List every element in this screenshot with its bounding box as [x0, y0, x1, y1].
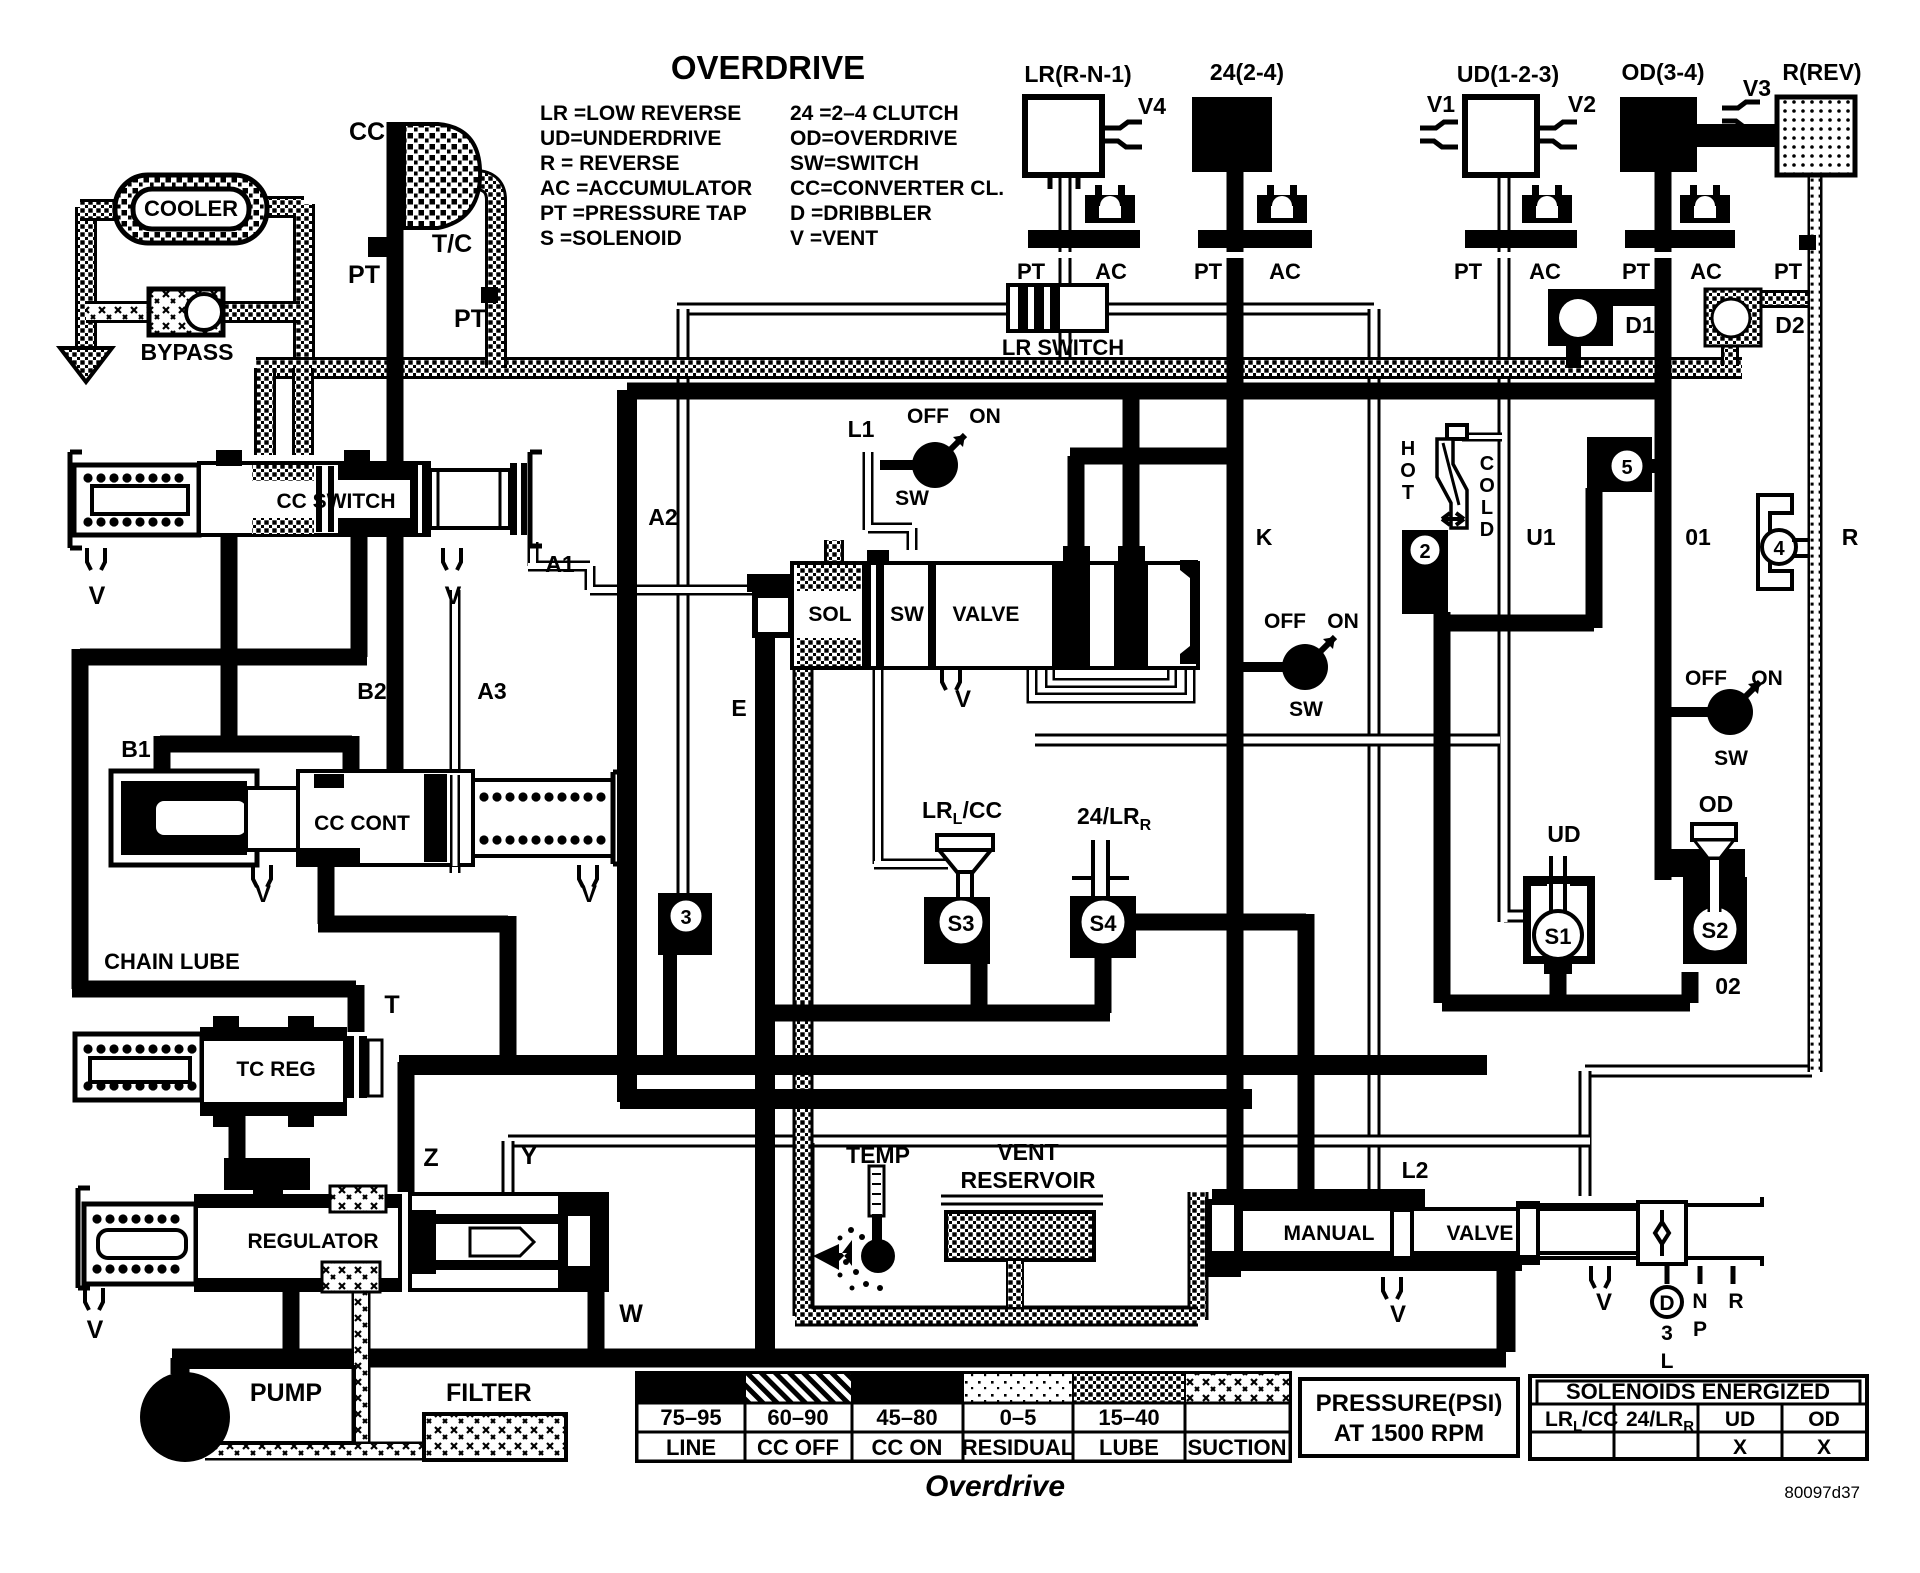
- svg-text:80097d37: 80097d37: [1784, 1483, 1860, 1502]
- svg-text:V: V: [87, 1316, 104, 1344]
- LR switch: [1008, 285, 1107, 331]
- svg-text:CC: CC: [349, 118, 385, 146]
- svg-text:R: R: [1842, 524, 1859, 550]
- svg-text:Z: Z: [423, 1144, 438, 1172]
- svg-text:ON: ON: [1751, 667, 1783, 690]
- regulator second stage valve: [410, 1194, 607, 1290]
- svg-text:O: O: [1479, 475, 1495, 497]
- svg-text:UD: UD: [1725, 1408, 1755, 1431]
- svg-text:CC=CONVERTER CL.: CC=CONVERTER CL.: [790, 177, 1004, 200]
- svg-text:K: K: [1256, 524, 1273, 550]
- svg-text:V: V: [255, 881, 271, 908]
- wire cooler left duct: [75, 207, 97, 348]
- svg-text:R: R: [1728, 1290, 1743, 1313]
- svg-text:CC OFF: CC OFF: [757, 1435, 839, 1460]
- manual valve position ticks: [1667, 1266, 1733, 1284]
- svg-text:UD=UNDERDRIVE: UD=UNDERDRIVE: [540, 127, 721, 150]
- svg-text:AC: AC: [1269, 259, 1301, 284]
- svg-text:02: 02: [1715, 973, 1741, 999]
- wire pressure switch 3 drop: [663, 950, 677, 1070]
- svg-text:CHAIN LUBE: CHAIN LUBE: [104, 949, 240, 974]
- svg-text:45–80: 45–80: [876, 1405, 937, 1430]
- vent under CC SWITCH right: [443, 548, 461, 570]
- wire LR switch left channel: [677, 303, 1010, 316]
- wire Z drop: [398, 1062, 415, 1192]
- svg-text:SUCTION: SUCTION: [1188, 1435, 1287, 1460]
- cooler: [115, 175, 267, 243]
- svg-text:OD=OVERDRIVE: OD=OVERDRIVE: [790, 127, 957, 150]
- reverse clutch box: [1777, 97, 1855, 175]
- wire solenoid valve top stub: [824, 540, 844, 580]
- svg-text:S4: S4: [1090, 911, 1118, 936]
- svg-text:PRESSURE(PSI): PRESSURE(PSI): [1316, 1390, 1503, 1417]
- wire TC REG to regulator drop: [229, 1110, 246, 1170]
- svg-text:H: H: [1401, 438, 1415, 460]
- svg-text:P: P: [1693, 1318, 1707, 1341]
- wire E line: [755, 578, 775, 1354]
- svg-text:D1: D1: [1625, 312, 1655, 338]
- svg-text:V: V: [955, 686, 971, 713]
- solenoids energized table: [1530, 1376, 1867, 1459]
- svg-text:SW: SW: [890, 603, 924, 626]
- svg-text:L: L: [1481, 497, 1493, 519]
- dribbler D2: [1705, 289, 1761, 346]
- wire main lube band: [256, 357, 1742, 379]
- wire D1 drain: [1566, 344, 1581, 368]
- vent under CC CONT right: [579, 865, 597, 887]
- vent V1: [1420, 122, 1458, 147]
- wire 24 valve junction: [1070, 391, 1235, 560]
- wire R residual line vertical: [1808, 170, 1823, 1072]
- svg-text:PT: PT: [1194, 259, 1223, 284]
- wire 5 to OD stub: [1645, 459, 1665, 473]
- svg-text:T/C: T/C: [432, 230, 472, 258]
- wire CC main line: [387, 122, 404, 776]
- temp spray: [813, 1240, 852, 1270]
- dribbler D1: [1548, 289, 1613, 346]
- svg-text:CC SWITCH: CC SWITCH: [277, 490, 396, 513]
- svg-text:N: N: [1692, 1290, 1707, 1313]
- valve MANUAL VALVE: [1212, 1189, 1425, 1211]
- vent under SOL valve: [942, 668, 960, 690]
- svg-text:5: 5: [1621, 457, 1632, 479]
- legend table: [637, 1373, 1290, 1461]
- wire W line: [588, 1290, 605, 1352]
- svg-text:ON: ON: [969, 405, 1001, 428]
- wire 24 switch stub: [1243, 662, 1284, 672]
- wire thermal to 5 bar: [1442, 488, 1594, 628]
- svg-text:T: T: [1402, 482, 1414, 504]
- bypass valve: [149, 289, 223, 335]
- svg-text:SW=SWITCH: SW=SWITCH: [790, 152, 919, 175]
- svg-text:UD: UD: [1547, 821, 1580, 847]
- vent under CC SWITCH left: [87, 548, 105, 570]
- svg-text:A1: A1: [545, 551, 575, 577]
- svg-text:S1: S1: [1545, 924, 1572, 949]
- torque converter T/C: [404, 124, 480, 228]
- svg-text:PT: PT: [1622, 259, 1651, 284]
- svg-text:RESIDUAL: RESIDUAL: [962, 1435, 1074, 1460]
- svg-text:60–90: 60–90: [767, 1405, 828, 1430]
- svg-text:AC: AC: [1095, 259, 1127, 284]
- pressure tap on CC line: [368, 237, 396, 257]
- wire SW to S3 line: [874, 660, 948, 864]
- OD clutch box: [1620, 97, 1697, 172]
- solenoid S3: [937, 835, 993, 850]
- wire hot-cold drop: [1434, 612, 1451, 1003]
- wire pump suction channel: [205, 1442, 430, 1461]
- svg-text:PT: PT: [454, 305, 486, 333]
- UD clutch box: [1465, 97, 1537, 175]
- wire OD to reverse connector: [1695, 124, 1779, 147]
- svg-text:LINE: LINE: [666, 1435, 716, 1460]
- wire mid vertical from H0: [617, 390, 637, 1102]
- svg-text:SOL: SOL: [808, 603, 851, 626]
- svg-text:LRL/CC: LRL/CC: [1545, 1408, 1618, 1435]
- wire UD output channel: [1035, 734, 1500, 747]
- thermal valve arrow: [1442, 513, 1464, 525]
- switch on 24 line: [1243, 662, 1305, 672]
- wire S4 drop: [1095, 952, 1112, 1013]
- wire bypass branch: [86, 301, 150, 323]
- svg-text:AC =ACCUMULATOR: AC =ACCUMULATOR: [540, 177, 752, 200]
- filter: [424, 1414, 566, 1460]
- accumulator OD: [1690, 185, 1697, 197]
- shift position D circle: [1652, 1287, 1682, 1317]
- wire bottom main line: [172, 1266, 1506, 1374]
- wire 24 clutch line: [1227, 170, 1244, 1192]
- wire thermal top connector: [1462, 433, 1502, 442]
- pressure switch 4: [1758, 495, 1792, 589]
- pump: [140, 1372, 230, 1462]
- svg-text:V1: V1: [1427, 91, 1455, 117]
- thermal valve HOT COLD: [1447, 425, 1467, 439]
- svg-text:LUBE: LUBE: [1099, 1435, 1159, 1460]
- svg-text:TEMP: TEMP: [846, 1142, 910, 1168]
- svg-text:PT: PT: [1774, 259, 1803, 284]
- wire B1 bar: [160, 736, 352, 780]
- vent V3: [1722, 102, 1760, 127]
- svg-text:D: D: [1480, 519, 1494, 541]
- svg-text:R = REVERSE: R = REVERSE: [540, 152, 679, 175]
- wire D2 drain: [1721, 344, 1739, 366]
- svg-text:01: 01: [1685, 524, 1711, 550]
- svg-text:D2: D2: [1775, 312, 1804, 338]
- svg-text:3: 3: [680, 907, 691, 929]
- svg-text:L: L: [1661, 1350, 1674, 1373]
- vent under CC CONT left: [253, 865, 271, 887]
- svg-text:2: 2: [1419, 541, 1430, 563]
- svg-text:B1: B1: [121, 736, 151, 762]
- svg-text:L2: L2: [1402, 1157, 1429, 1183]
- svg-text:3: 3: [1661, 1322, 1673, 1345]
- svg-text:T: T: [384, 991, 399, 1019]
- svg-text:R(REV): R(REV): [1782, 59, 1861, 85]
- switch on OD line: [1671, 707, 1730, 717]
- svg-text:V: V: [89, 582, 106, 610]
- svg-text:PT: PT: [1017, 259, 1046, 284]
- wire OD clutch line: [1655, 170, 1672, 880]
- pressure switch 5: [1587, 437, 1652, 492]
- svg-text:LR(R-N-1): LR(R-N-1): [1024, 61, 1131, 87]
- vent V2: [1539, 122, 1577, 147]
- switch on L1 line: [880, 460, 935, 470]
- check ball D box in manual valve: [1638, 1202, 1686, 1264]
- svg-text:V2: V2: [1568, 91, 1596, 117]
- svg-text:TC REG: TC REG: [236, 1058, 315, 1081]
- svg-text:Overdrive: Overdrive: [925, 1470, 1065, 1503]
- svg-text:0–5: 0–5: [1000, 1405, 1037, 1430]
- vent reservoir pool: [941, 1196, 1103, 1204]
- svg-text:S2: S2: [1702, 918, 1729, 943]
- wire main line H0: [627, 383, 1660, 400]
- svg-text:PUMP: PUMP: [250, 1379, 322, 1407]
- svg-text:D: D: [1659, 1292, 1674, 1315]
- temp thermometer: [869, 1166, 884, 1216]
- pressure tap on R line: [1799, 235, 1816, 250]
- svg-text:VALVE: VALVE: [1447, 1222, 1514, 1245]
- OD funnel above S2: [1671, 849, 1745, 877]
- valve SOL SW VALVE assembly: [752, 574, 792, 638]
- svg-text:OD: OD: [1699, 791, 1734, 817]
- wire S4 to manual valve: [1130, 914, 1306, 1192]
- wire main line H1: [399, 1055, 1487, 1075]
- svg-text:Y: Y: [521, 1142, 538, 1170]
- wire R residual channel horizontal: [1585, 1065, 1812, 1078]
- wire solenoid supply bar: [765, 1005, 1110, 1022]
- wire LR switch right channel: [1105, 303, 1374, 316]
- vent under MANUAL VALVE right: [1591, 1266, 1609, 1288]
- accumulator LR: [1095, 185, 1102, 197]
- pressure switch 3: [658, 893, 712, 955]
- svg-text:SW: SW: [895, 487, 929, 510]
- svg-text:24 =2–4 CLUTCH: 24 =2–4 CLUTCH: [790, 102, 959, 125]
- svg-text:SW: SW: [1289, 698, 1323, 721]
- svg-text:E: E: [731, 695, 746, 721]
- wire OD to D1 stub: [1610, 289, 1658, 306]
- svg-text:L1: L1: [848, 416, 875, 442]
- wire valve feedback channels: [1032, 662, 1190, 698]
- svg-text:V3: V3: [1743, 75, 1771, 101]
- svg-text:OFF: OFF: [1685, 667, 1727, 690]
- wire manual valve top port channel: [1579, 1071, 1592, 1196]
- wire A2 line: [677, 309, 690, 893]
- svg-text:S3: S3: [948, 911, 975, 936]
- svg-text:U1: U1: [1526, 524, 1556, 550]
- solenoid S4: [1072, 840, 1129, 898]
- wire L1 switch line: [868, 452, 912, 550]
- wire S3 drop: [971, 960, 988, 1013]
- solenoid S2: [1683, 877, 1747, 964]
- wire OD switch stub: [1671, 707, 1708, 717]
- svg-text:PT: PT: [348, 261, 380, 289]
- pressure tap on T/C return: [481, 287, 498, 303]
- wire A3 channel through CC CONT: [450, 775, 460, 866]
- accumulator 24: [1267, 185, 1274, 197]
- 24 clutch box: [1192, 97, 1272, 172]
- valve CC SWITCH: [70, 452, 82, 548]
- svg-text:ON: ON: [1327, 610, 1359, 633]
- wire torque converter return duct: [478, 180, 496, 368]
- wire lube drop right: [292, 368, 314, 455]
- svg-text:4: 4: [1773, 538, 1785, 560]
- valve TC REG: [75, 1034, 202, 1100]
- svg-text:A2: A2: [648, 504, 677, 530]
- svg-text:V4: V4: [1138, 93, 1166, 119]
- svg-text:FILTER: FILTER: [446, 1379, 532, 1407]
- LR clutch box: [1025, 97, 1102, 175]
- svg-text:V: V: [1596, 1289, 1612, 1316]
- svg-text:REGULATOR: REGULATOR: [247, 1230, 378, 1253]
- svg-text:MANUAL: MANUAL: [1284, 1222, 1375, 1245]
- wire CC switch mid drop to chain lube: [72, 532, 367, 1032]
- svg-text:PT =PRESSURE TAP: PT =PRESSURE TAP: [540, 202, 747, 225]
- svg-text:OVERDRIVE: OVERDRIVE: [671, 49, 865, 86]
- svg-text:V: V: [581, 881, 597, 908]
- svg-text:SW: SW: [1714, 747, 1748, 770]
- wire cooler inlet stub: [80, 199, 125, 221]
- svg-text:LR =LOW REVERSE: LR =LOW REVERSE: [540, 102, 741, 125]
- svg-text:S =SOLENOID: S =SOLENOID: [540, 227, 682, 250]
- pressure switch 2: [1402, 530, 1448, 614]
- svg-text:OD(3-4): OD(3-4): [1621, 59, 1704, 85]
- svg-text:15–40: 15–40: [1098, 1405, 1159, 1430]
- vent under MANUAL VALVE left: [1383, 1277, 1401, 1299]
- svg-text:OFF: OFF: [907, 405, 949, 428]
- wire cooler outlet duct: [262, 204, 304, 368]
- wire L2 line: [1368, 309, 1381, 1192]
- svg-text:V: V: [1390, 1301, 1406, 1328]
- svg-text:CC ON: CC ON: [872, 1435, 943, 1460]
- svg-text:O: O: [1400, 460, 1416, 482]
- valve REGULATOR: [78, 1188, 90, 1288]
- svg-text:24(2-4): 24(2-4): [1210, 59, 1284, 85]
- wire A3 line: [450, 590, 461, 873]
- svg-text:OFF: OFF: [1264, 610, 1306, 633]
- wire regulator drop: [283, 1288, 300, 1352]
- wire A1 line: [528, 542, 752, 590]
- svg-text:W: W: [619, 1300, 643, 1328]
- temp enclosure: [813, 1143, 1198, 1308]
- svg-text:AC: AC: [1690, 259, 1722, 284]
- wire S1 S2 supply bar: [1442, 995, 1690, 1012]
- vent under REGULATOR: [85, 1288, 103, 1310]
- svg-text:OD: OD: [1808, 1408, 1840, 1431]
- vent V4: [1104, 122, 1142, 147]
- wire S1 drop: [1550, 958, 1567, 1003]
- svg-text:B2: B2: [357, 678, 386, 704]
- svg-text:75–95: 75–95: [660, 1405, 721, 1430]
- svg-text:LR SWITCH: LR SWITCH: [1002, 335, 1124, 360]
- svg-text:RESERVOIR: RESERVOIR: [960, 1167, 1095, 1193]
- wire lube drop left: [254, 368, 276, 455]
- solenoid S1: [1527, 880, 1591, 960]
- svg-text:X: X: [1733, 1436, 1747, 1459]
- wire lube drain to reservoir: [795, 652, 1198, 1320]
- svg-text:X: X: [1817, 1436, 1831, 1459]
- svg-text:PT: PT: [1454, 259, 1483, 284]
- wire CC switch left drop: [221, 532, 238, 736]
- svg-text:VENT: VENT: [997, 1139, 1058, 1165]
- wire S2 drop: [1682, 972, 1699, 1003]
- svg-text:V =VENT: V =VENT: [790, 227, 878, 250]
- valve CC CONT: [111, 771, 257, 865]
- accumulator UD: [1532, 185, 1539, 197]
- svg-text:AT 1500 RPM: AT 1500 RPM: [1334, 1420, 1484, 1447]
- svg-text:BYPASS: BYPASS: [141, 339, 234, 365]
- svg-text:A3: A3: [477, 678, 506, 704]
- svg-text:V: V: [445, 582, 462, 610]
- wire main line H2: [620, 1089, 1252, 1109]
- wire LR accumulator feed: [1059, 172, 1072, 295]
- svg-text:AC: AC: [1529, 259, 1561, 284]
- svg-text:CC CONT: CC CONT: [314, 812, 410, 835]
- wire D2 to R line stub: [1756, 290, 1810, 308]
- wire U1 line: [1504, 172, 1530, 922]
- svg-text:SOLENOIDS ENERGIZED: SOLENOIDS ENERGIZED: [1566, 1379, 1830, 1404]
- wire regulator suction drain: [352, 1290, 371, 1452]
- svg-text:C: C: [1480, 453, 1494, 475]
- svg-text:UD(1-2-3): UD(1-2-3): [1457, 61, 1559, 87]
- wire CC CONT outlet snake: [318, 860, 508, 1068]
- wire Y channel: [508, 1135, 1590, 1148]
- pressure psi box: [1300, 1379, 1518, 1456]
- svg-text:VALVE: VALVE: [953, 603, 1020, 626]
- svg-text:D =DRIBBLER: D =DRIBBLER: [790, 202, 932, 225]
- svg-text:COOLER: COOLER: [144, 196, 238, 221]
